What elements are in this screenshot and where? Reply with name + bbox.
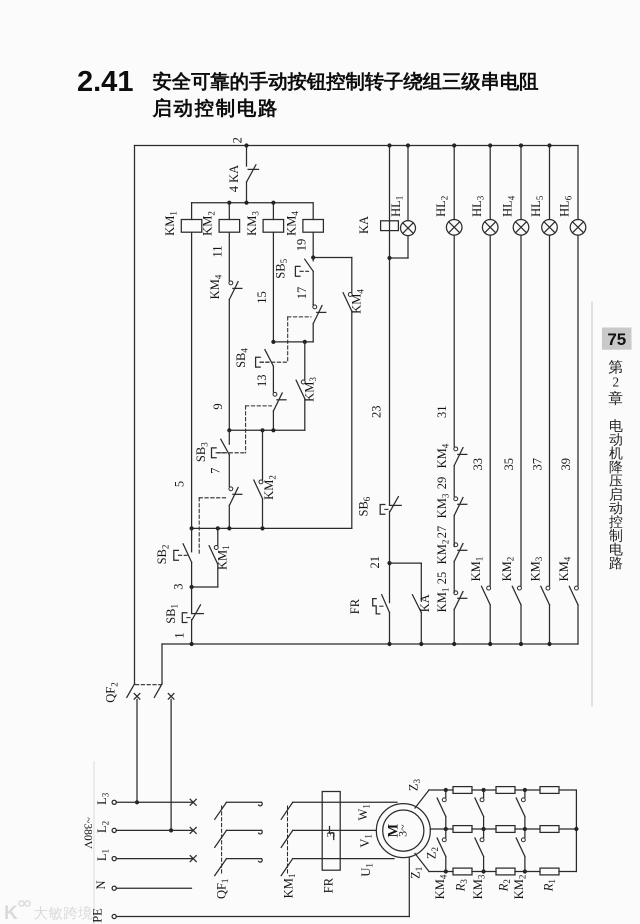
contactor contact KM2 (NC) in HL2 branch	[435, 540, 467, 565]
wire: SB2 to node 3	[191, 562, 193, 587]
svg-text:4 KA: 4 KA	[227, 165, 241, 192]
contactor KM3 short contact upper	[475, 790, 484, 829]
wire: node 5 horizontal bus	[190, 526, 352, 530]
contactor coil KM2	[201, 203, 240, 236]
svg-text:9: 9	[211, 403, 225, 409]
wire: node 7 segment	[208, 455, 229, 487]
mechanical link KM1 main + label	[282, 806, 298, 898]
wire: star point bus after R1	[574, 790, 578, 872]
pushbutton SB1 (NC) stop	[164, 587, 203, 624]
svg-text:N: N	[94, 880, 108, 889]
breaker QF1 pole on L1	[190, 856, 262, 876]
contactor contact KM3 (NO)	[296, 342, 318, 402]
thermal relay contact FR	[348, 563, 389, 614]
svg-text:K: K	[4, 903, 18, 924]
mechanical link SB2	[199, 498, 227, 555]
supply terminal L2	[95, 821, 116, 833]
svg-text:13: 13	[255, 375, 269, 388]
wire: FR to motor (L1)	[322, 858, 394, 860]
resistor R1 element row 2	[540, 826, 559, 833]
svg-text:29: 29	[435, 477, 449, 490]
contactor KM1 main pole on L3	[281, 802, 322, 819]
wire: HL3 lamp to node 33	[471, 235, 490, 586]
page number 75 box	[602, 328, 632, 350]
wire: KA branch node 23	[370, 231, 390, 505]
svg-text:2: 2	[231, 137, 245, 143]
mechanical link SB3	[218, 406, 272, 453]
wire: HL5 lamp to node 37	[530, 235, 549, 586]
sidebar chapter text 第2章	[609, 360, 623, 405]
wire: KM4 branch to node13 bus	[312, 324, 314, 342]
signal lamp HL2	[434, 196, 462, 235]
contactor contact KM2 (NO) in HL4 branch	[500, 557, 522, 605]
svg-text:15: 15	[255, 291, 269, 304]
svg-text:25: 25	[435, 572, 449, 585]
thermal overload relay FR heater box	[322, 792, 341, 894]
wire: node 9 segment	[211, 300, 230, 431]
wire: rotor phase row 2	[446, 828, 577, 830]
wire: node 27	[435, 516, 454, 547]
wire: KA contact to bottom bus	[419, 613, 423, 647]
rotor lead Z1	[409, 854, 430, 879]
wire: KM1 aux to node 3	[217, 564, 219, 587]
svg-text:3~: 3~	[395, 824, 409, 837]
wire: HL4 lamp to node 35	[502, 235, 521, 586]
svg-text:75: 75	[607, 330, 626, 349]
contactor contact KM1 (NC) in HL2 branch	[435, 588, 467, 613]
svg-text:1: 1	[172, 632, 186, 638]
wire: coil bus	[192, 202, 313, 204]
resistor R1 element row 3	[540, 868, 559, 875]
wire: left supply rail	[134, 146, 136, 684]
wire: HL4 branch to bottom bus	[519, 605, 523, 646]
mechanical link QF2 + label	[104, 682, 161, 702]
contactor contact KM3 (NO) in HL5 branch	[528, 556, 550, 605]
signal lamp HL3 branch	[488, 143, 492, 219]
supply terminal L1	[95, 849, 116, 861]
svg-text:3: 3	[326, 831, 338, 837]
junction dots on coil bus	[227, 201, 275, 205]
wire: node 3 horizontal	[171, 583, 218, 589]
mechanical link SB4	[260, 317, 311, 362]
junction dots column KM4	[444, 788, 448, 874]
wire: HL5 branch to bottom bus	[547, 605, 551, 646]
svg-text:3: 3	[171, 583, 185, 589]
wire: HL1 to KA branch junction	[387, 236, 408, 261]
resistor R3 element row 2	[453, 826, 472, 833]
signal lamp HL4 branch	[519, 143, 523, 219]
wire: HL3 branch to bottom bus	[488, 605, 492, 646]
wire: node 25	[435, 562, 454, 593]
mechanical link QF1 + label	[215, 806, 231, 899]
contactor KM4 short contact lower	[437, 829, 446, 872]
svg-text:KA: KA	[418, 594, 432, 612]
page gutter shadow	[93, 762, 95, 924]
pushbutton SB4 (NO)	[234, 348, 274, 368]
junction dots column KM2	[523, 788, 527, 874]
signal lamp HL3	[470, 195, 498, 235]
resistor R1 element row 1	[540, 787, 559, 794]
wire: KM4 aux branch down to node5 bus	[351, 311, 353, 528]
contactor contact KM4 (NO) in HL6 branch	[557, 556, 579, 605]
svg-text:7: 7	[208, 468, 222, 474]
svg-text:27: 27	[435, 526, 449, 539]
signal lamp HL6 branch	[577, 146, 579, 220]
motor terminal labels W1 V1 U1	[356, 804, 375, 877]
wire: HL6 lamp to node 39	[559, 235, 578, 586]
contactor coil KM4	[285, 203, 324, 236]
rotor lead Z2	[424, 829, 446, 859]
wire: KM1 coil branch (node 5)	[172, 232, 191, 528]
pushbutton contact SB3-linked (NC) in KM3 branch	[273, 392, 286, 411]
pushbutton SB3 (NO)	[194, 430, 229, 462]
svg-text:11: 11	[211, 245, 225, 257]
svg-text:33: 33	[471, 458, 485, 471]
pushbutton contact SB2-linked (NC) in KM1 chain	[229, 487, 242, 506]
svg-text:35: 35	[502, 458, 516, 471]
wire: rotor phase row 1	[429, 789, 576, 791]
wire: KM2 aux to node5 bus	[262, 499, 264, 529]
signal lamp HL2 branch	[452, 143, 456, 219]
wire: FR to motor (L2)	[322, 829, 376, 831]
wire: HL6 branch to bottom bus	[577, 605, 579, 644]
svg-text:23: 23	[370, 406, 384, 419]
contactor coil KM1	[163, 203, 202, 236]
relay contact KA (NO)	[412, 563, 432, 612]
pushbutton contact SB4-linked (NC) in KM4 branch	[313, 305, 326, 324]
contactor KM1 main pole on L2	[281, 830, 322, 847]
signal lamp HL5 branch	[547, 143, 551, 219]
wire: SB6 to node 21	[368, 511, 391, 568]
wire: KM2 coil branch node 11	[211, 232, 230, 280]
resistor R2 element row 2	[496, 826, 515, 833]
wire: QF2 pole1 to L3	[135, 699, 139, 804]
wire: node19 horizontal to KM4 aux branch	[313, 257, 352, 259]
signal lamp HL1 branch	[406, 143, 410, 220]
wire: N line	[94, 880, 191, 890]
wire: top supply rail	[135, 145, 579, 147]
svg-text:~380V: ~380V	[82, 817, 94, 849]
contactor contact KM4 (NC) in HL2 branch	[435, 443, 467, 468]
pushbutton SB6 (NC)	[356, 496, 401, 516]
wire: node 17	[295, 271, 313, 304]
contactor KM2 short contact lower	[516, 829, 525, 872]
wire: node 9 horizontal bus	[227, 428, 305, 432]
wire: phase L1 to QF1	[116, 858, 193, 860]
relay contact KA (NC) top feed	[227, 146, 259, 193]
watermark logo	[4, 901, 30, 924]
svg-text:PE: PE	[91, 908, 105, 923]
contactor KM3 short contact lower	[475, 829, 484, 872]
wire: QF2 pole2 to L2	[169, 699, 173, 832]
pushbutton SB2 (NO) start	[155, 528, 192, 564]
wire: phase L3 to QF1	[116, 801, 193, 803]
wire: rotor phase row 3	[429, 871, 576, 873]
svg-text:37: 37	[530, 458, 544, 471]
contactor contact KM4 (NO) self-holding branch	[343, 258, 365, 314]
wire: FR to motor (L3)	[322, 801, 397, 803]
wire: KM3 coil branch node 15	[255, 232, 273, 342]
wire: node 1 to bottom bus	[172, 620, 193, 647]
wire: bottom control bus	[162, 643, 578, 645]
wire: phase L2 to QF1	[116, 829, 193, 831]
contactor contact KM2 (NO)	[254, 430, 278, 500]
breaker QF1 pole on L2	[190, 827, 262, 847]
wire: node 4 to coil bus	[246, 182, 248, 203]
svg-text:39: 39	[559, 458, 573, 471]
wire: KM3 branch to node9 bus	[272, 411, 274, 430]
wire: node 13 segment	[255, 366, 273, 392]
svg-text:2: 2	[612, 375, 619, 390]
watermark text	[34, 906, 92, 920]
pushbutton SB5 (NO)	[273, 258, 313, 279]
wire: KM4 coil branch node 19	[295, 232, 316, 259]
wire: to node5 bus	[228, 506, 230, 529]
wire: node 13 horizontal bus	[271, 340, 313, 344]
svg-text:31: 31	[435, 406, 449, 419]
wire: FR to bottom bus	[387, 613, 391, 647]
node 2	[231, 137, 249, 148]
resistor R3 element row 1	[453, 787, 472, 794]
contactor KM4 short contact upper	[437, 790, 446, 829]
circuit breaker QF2 pole 2	[154, 644, 174, 699]
signal lamp HL1	[389, 196, 416, 236]
contactor contact KM4 (NC) in KM2 branch	[208, 274, 242, 299]
svg-text:FR: FR	[322, 877, 336, 893]
svg-text:5: 5	[172, 481, 186, 487]
contactor KM1 main pole on L1	[281, 859, 322, 876]
breaker QF1 pole on L3	[190, 799, 262, 819]
supply terminal L3	[95, 792, 116, 805]
svg-text:21: 21	[368, 556, 382, 569]
contactor contact KM1 (NO) in HL3 branch	[469, 557, 490, 605]
wire: PE line	[91, 908, 410, 923]
junction dots column KM3	[482, 788, 486, 874]
svg-text:17: 17	[295, 287, 309, 300]
title line 2	[153, 98, 276, 117]
motor M 3~	[376, 804, 430, 858]
circuit breaker QF2 pole 1	[127, 684, 140, 699]
signal lamp HL4	[501, 195, 529, 235]
wire: HL2 branch to bottom bus	[452, 610, 456, 647]
wire: KM3 aux branch to node9 bus	[304, 399, 306, 430]
title line 1	[153, 72, 538, 91]
resistor R2 element row 3	[496, 868, 515, 875]
contactor contact KM1 (NO) self-holding	[209, 528, 231, 570]
wire: PE to motor frame	[408, 858, 410, 917]
svg-text:KA: KA	[357, 216, 371, 234]
sidebar text 电动机降压启动控制电路	[609, 419, 623, 569]
page fold line	[591, 302, 593, 706]
signal lamp HL6	[558, 195, 586, 235]
svg-text:2.41: 2.41	[77, 66, 133, 98]
svg-text:FR: FR	[348, 598, 362, 614]
wire: node 29	[435, 466, 454, 497]
wire: node 21 horizontal to KA contact branch	[390, 562, 422, 564]
wire: HL2 lamp to node 31	[435, 235, 454, 447]
signal lamp HL5	[529, 195, 557, 235]
rotor lead Z3	[407, 778, 430, 808]
resistor R2 element row 1	[496, 787, 515, 794]
relay coil KA	[357, 216, 398, 234]
contactor KM2 short contact upper	[516, 790, 525, 829]
contactor contact KM3 (NC) in HL2 branch	[435, 493, 467, 518]
contactor coil KM3	[245, 203, 284, 236]
relay coil KA branch	[387, 143, 391, 230]
svg-text:19: 19	[295, 239, 309, 252]
resistor R3 element row 3	[453, 868, 472, 875]
